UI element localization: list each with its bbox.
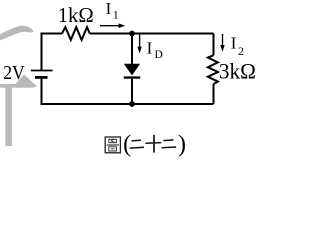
- wire top-left to resistor: [42, 34, 63, 71]
- label ID: [147, 38, 163, 61]
- wire diode to bottom junction: [131, 79, 133, 104]
- current arrow ID: [137, 35, 141, 54]
- svg-text:): ): [178, 131, 186, 157]
- node junction bottom: [129, 101, 135, 107]
- svg-text:D: D: [155, 49, 163, 61]
- figure caption 圖(二十二): [105, 131, 186, 157]
- wire right branch bottom: [213, 84, 215, 104]
- battery V1 2V: [31, 71, 53, 78]
- svg-text:1kΩ: 1kΩ: [58, 3, 94, 27]
- svg-text:2: 2: [238, 44, 244, 58]
- wire junction to diode: [131, 34, 133, 65]
- diode D1: [124, 64, 140, 79]
- svg-text:(: (: [123, 132, 131, 158]
- resistor R2 3kOhm zigzag: [208, 55, 218, 84]
- svg-text:1: 1: [113, 7, 119, 21]
- svg-text:3kΩ: 3kΩ: [219, 59, 256, 83]
- node junction top: [129, 31, 135, 37]
- resistor R1 1kOhm zigzag: [62, 27, 90, 40]
- wire bottom: [42, 77, 214, 104]
- svg-text:2V: 2V: [3, 62, 25, 84]
- svg-text:I: I: [106, 0, 112, 18]
- label I1: [106, 0, 119, 21]
- current arrow I1: [100, 23, 125, 28]
- wire right branch top: [213, 34, 215, 56]
- wire resistor to top-right corner: [90, 33, 214, 35]
- label I2: [231, 34, 244, 59]
- svg-text:I: I: [147, 38, 153, 57]
- svg-text:I: I: [231, 34, 237, 53]
- current arrow I2: [220, 34, 224, 52]
